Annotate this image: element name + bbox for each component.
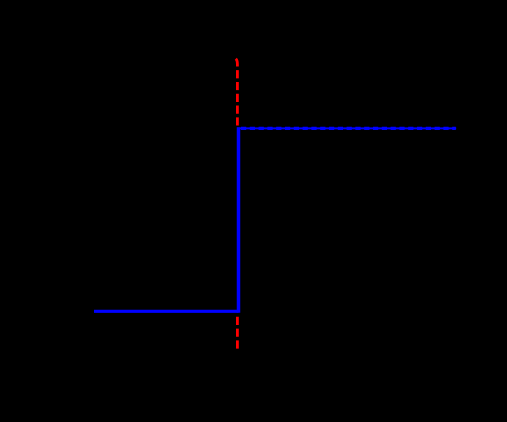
wire: blue step vertical segment [237,127,241,312]
wire: blue step upper segment (solid) [237,127,456,129]
wire: blue dashed overlay on upper segment [241,127,456,130]
red dashed threshold line, upper part (above the step) [236,59,238,127]
wire: blue step lower segment [94,310,239,313]
red dashed threshold line, lower part (below the step) [236,317,239,349]
